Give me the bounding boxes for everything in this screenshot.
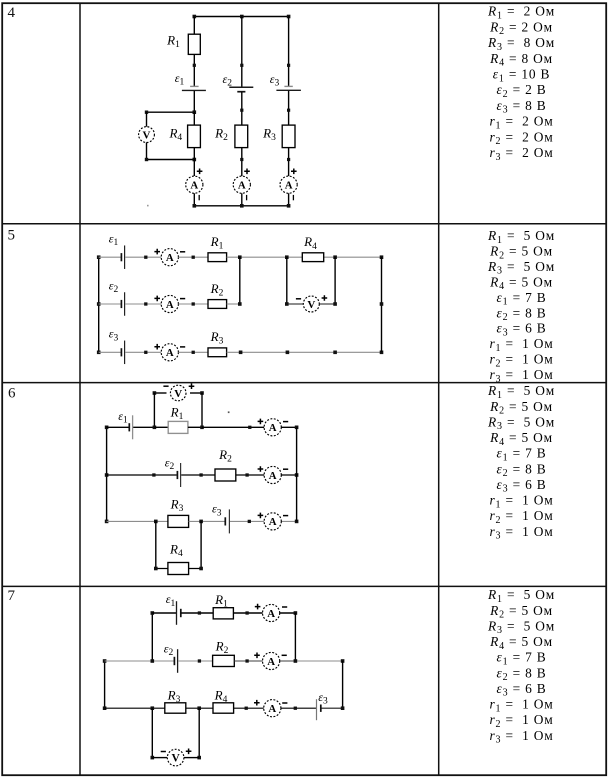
svg-text:A: A (268, 703, 276, 715)
resistor R4 (row7) (213, 703, 234, 713)
wire row4 bottom bus (194, 205, 288, 207)
node row6 Vloop top-right corner (200, 391, 204, 395)
node row4 branch3 lower junction (287, 158, 290, 161)
svg-text:R1 = 5 ОмR2 = 5 ОмR3 = 5 ОмR: R1 = 5 ОмR2 = 5 ОмR3 = 5 ОмR4 = 5 Омε1 =… (487, 228, 555, 385)
resistor R3 (row4) (282, 125, 295, 148)
node row4 bottom-right (287, 204, 291, 208)
wire row5 branch 1 segment B (125, 256, 161, 258)
wire row4 branch3 ammeter to bottom (288, 193, 290, 206)
minus mark ammeter1 (row6) (283, 421, 288, 423)
wire row6 left bus (106, 427, 108, 521)
battery eps3 (row6): long plate (228, 509, 230, 533)
plus mark ammeter1 (row5) (154, 249, 160, 255)
minus mark ammeter3 (row7) (282, 702, 287, 704)
wire row7 branch3 segA (105, 707, 165, 709)
svg-text:A: A (238, 180, 246, 192)
resistor R3 (row6) (168, 515, 189, 527)
node row7 branch2 junction-right (294, 659, 298, 663)
node row6 Vloop top-left corner (153, 391, 157, 395)
wire row6 branch3 segB (189, 520, 225, 522)
ammeter A2 (row6) (264, 466, 281, 483)
node row4 Vloop bottom-left (145, 158, 148, 161)
wire row5 Vloop right vertical (334, 257, 336, 304)
battery eps2 (row7): long plate (177, 649, 179, 673)
battery eps2 (row4): long plate (229, 86, 253, 88)
resistor R4 (row4) (188, 125, 201, 148)
node row5 right-bottom corner (380, 351, 384, 355)
wire row5 branch 2 segment A (99, 303, 121, 305)
svg-text:7: 7 (8, 588, 16, 604)
node row5 left-top (97, 255, 101, 259)
wire row7 branch1 segA (152, 612, 176, 614)
plus mark ammeter1 (row4) (197, 169, 203, 175)
ammeter A2 (row5) (161, 295, 178, 312)
wire row7 Vloop bottom-right seg (184, 757, 199, 759)
node row7 branch1 right corner (294, 611, 298, 615)
node row4 branch1 junction (193, 64, 196, 67)
voltmeter V (row6) (170, 385, 186, 401)
node row5 branch1 pre-ammeter (144, 256, 147, 259)
minus mark ammeter2 (row7) (282, 654, 287, 656)
node row6 right-bottom corner (295, 520, 299, 524)
battery eps1 (row7): short plate (180, 609, 182, 617)
svg-text:4: 4 (8, 5, 16, 21)
node row7 branch3 d2 (294, 707, 297, 710)
svg-text:V: V (174, 388, 182, 400)
node row5 junction R1-R2 (238, 255, 242, 259)
battery eps3 (row6): short plate (224, 517, 226, 525)
wire row5 branch 3 segment A (99, 351, 121, 353)
wire row7 branch3 segC (234, 707, 316, 709)
row divider 5/6 (2, 382, 606, 384)
battery eps2 (row7): short plate (173, 657, 175, 665)
wire row4 branch2 upper (241, 17, 243, 87)
plus mark ammeter3 (row4) (291, 169, 297, 175)
ammeter A1 (row6) (264, 419, 281, 436)
wire row6 R4loop left vertical (155, 521, 157, 568)
node row4 top-left (193, 15, 197, 19)
plus mark voltmeter (row6) (189, 383, 195, 389)
node row4 branch2 junction (240, 64, 243, 67)
node row5 junction Vloop-right-top (333, 255, 337, 259)
ammeter A2 (row4) (233, 176, 250, 193)
node row5 branch3 pre-resistor (192, 351, 195, 354)
wire row6 branch1 segA (107, 426, 130, 428)
svg-text:A: A (166, 299, 174, 311)
wire row6 branch1 segB (133, 426, 154, 428)
node row4 bottom-left (193, 204, 197, 208)
node row5 branch2 pre-ammeter (144, 302, 147, 305)
row divider 4/5 (2, 223, 606, 225)
wire row5 branch 2 segment C (178, 303, 208, 305)
minus mark voltmeter (row7) (161, 751, 166, 753)
svg-text:6: 6 (8, 386, 16, 402)
wire row6 branch1 segC (154, 426, 168, 428)
svg-text:A: A (267, 608, 275, 620)
node row4 Vloop top-right (193, 110, 197, 114)
minus tick ammeter1 (row4) (198, 195, 200, 200)
wire row4 branch2 battery to R2 (241, 92, 243, 125)
resistor R1 (row7) (213, 608, 233, 619)
ammeter A3 (row6) (264, 513, 281, 530)
wire row6 branch3 segC (230, 520, 297, 522)
plus mark ammeter2 (row7) (254, 653, 260, 659)
wire row4 top bus (194, 16, 288, 18)
resistor R1 (row6) (168, 421, 188, 433)
wire row4 branch1 to battery eps1 (193, 54, 195, 86)
row divider 6/7 (2, 585, 606, 587)
node row5 branch3 d3 (333, 351, 337, 355)
stray dot (row6) (228, 411, 230, 413)
node row5 branch3 pre-ammeter (144, 351, 147, 354)
node row7 Vloop bottom-left (151, 756, 155, 760)
battery eps2 (row6): long plate (180, 463, 182, 487)
wire row5 branch 1 segment A (99, 256, 121, 258)
wire row4 voltmeter loop bottom (147, 159, 195, 161)
resistor R2 (row5) (208, 300, 227, 309)
wire row6 branch3 segA (107, 520, 168, 522)
ammeter A3 (row4) (280, 176, 297, 193)
minus mark voltmeter (row5) (296, 298, 301, 300)
minus mark ammeter1 (row5) (180, 251, 185, 253)
wire row5 left bus (98, 257, 100, 352)
node row7 left-bottom (103, 706, 107, 710)
node row7 left-mid (103, 659, 107, 663)
wire row5 connector R1R2 (239, 257, 241, 304)
node row4 bottom-mid (240, 204, 244, 208)
wire row4 voltmeter loop top (147, 111, 195, 113)
node row5 branch1 pre-resistor (192, 256, 195, 259)
node row5 branch2 pre-resistor (192, 302, 195, 305)
svg-text:R1 = 2 ОмR2 = 2 ОмR3 = 8 ОмR: R1 = 2 ОмR2 = 2 ОмR3 = 8 ОмR4 = 8 Омε1 =… (487, 4, 555, 163)
minus mark ammeter1 (row7) (282, 606, 287, 608)
plus mark ammeter3 (row6) (258, 513, 264, 519)
battery eps3 (row7): long plate (316, 699, 318, 720)
wire row6 branch1 segD (188, 426, 202, 428)
node row4 branch3 mid junction (287, 109, 290, 112)
svg-text:5: 5 (8, 228, 16, 244)
node row6 right-mid (295, 473, 299, 477)
node row7 Vloop bottom-right (197, 756, 201, 760)
plus mark ammeter2 (row6) (258, 466, 264, 472)
wire row4 branch2 R2 to ammeter (241, 148, 243, 176)
resistor R4 (row5) (302, 253, 323, 262)
node row4 Vloop top-left (145, 111, 148, 114)
minus mark ammeter3 (row5) (180, 346, 185, 348)
node row6 branch3 R4junction-right (199, 520, 203, 524)
wire row7 right-lower vertical (342, 661, 344, 708)
resistor R3 (row5) (208, 348, 227, 357)
voltmeter V (row5) (303, 296, 319, 312)
ammeter A1 (row5) (161, 249, 178, 266)
resistor R4 (row6) (168, 563, 189, 575)
wire row5 Vloop left vertical (286, 257, 288, 304)
node row6 branch1 pre-ammeter (248, 426, 251, 429)
wire row6 Vloop top-left (154, 392, 166, 394)
ammeter A2 (row7) (263, 652, 280, 669)
wire row5 branch 1 segment C (178, 256, 208, 258)
node row6 R4loop bottom-right (199, 567, 203, 571)
node row7 branch1 d1 (198, 611, 201, 614)
wire row5 branch 3 segment C (178, 351, 208, 353)
node row6 R4loop bottom-left (154, 567, 158, 571)
wire row4 branch1 to R4 (193, 112, 195, 125)
node row6 branch2 d2 (199, 473, 202, 476)
node row7 branch2 right corner (341, 659, 345, 663)
node row5 left-bottom (97, 351, 101, 355)
wire row4 branch1 upper (193, 17, 195, 35)
wire row4 branch1 ammeter to bottom (193, 193, 195, 206)
wire row7 branch1 segC (233, 612, 295, 614)
wire row4 branch1 battery to Vloop (193, 91, 195, 112)
wire row7 branch3 segB (186, 707, 213, 709)
svg-text:A: A (190, 180, 198, 192)
minus mark ammeter2 (row6) (283, 468, 288, 470)
node row4 top-right (287, 15, 291, 19)
wire row7 branch2 segA (105, 660, 175, 662)
plus mark ammeter1 (row7) (255, 604, 261, 610)
wire row4 branch2 ammeter to bottom (241, 193, 243, 206)
minus mark ammeter2 (row5) (180, 298, 185, 300)
wire row7 branch1 segB (181, 612, 213, 614)
node row5 junction Vloop-left-top (285, 255, 289, 259)
node row5 left-mid (97, 302, 101, 306)
node row4 Vloop bottom-right (193, 158, 197, 162)
wire row6 R4loop bottom (156, 568, 201, 570)
table column divider 1 (79, 3, 81, 775)
node row7 branch3 Vjunction-left (151, 706, 155, 710)
battery eps1 (row6): long plate (132, 415, 134, 439)
battery eps2 (row6): short plate (176, 471, 178, 479)
wire row6 R4loop right vertical (200, 521, 202, 568)
svg-text:A: A (267, 656, 275, 668)
node row5 branch3 d2 (286, 351, 290, 355)
node row7 branch1 pre-ammeter (245, 611, 248, 614)
plus mark ammeter3 (row5) (154, 344, 160, 350)
ammeter A1 (row4) (186, 176, 203, 193)
battery eps3 (row7): short plate (320, 705, 322, 712)
plus mark voltmeter (row7) (186, 749, 192, 755)
svg-text:V: V (307, 299, 315, 311)
wire row4 Vloop left lower (146, 142, 148, 159)
battery eps2 (row5) (120, 300, 122, 308)
node row5 branch2 end (238, 302, 242, 306)
node row6 left-mid (105, 473, 109, 477)
battery eps1 (row4): long plate (182, 89, 206, 91)
wire row6 Vloop right vertical (201, 393, 203, 427)
node row5 Vloop bottom-left (285, 302, 289, 306)
wire row7 left bus (104, 661, 106, 708)
wire row5 branch1 segment D (227, 256, 382, 258)
svg-text:A: A (166, 252, 174, 264)
battery eps2 (row4): short plate (237, 91, 245, 93)
node row4 branch2 lower junction (240, 158, 243, 161)
battery eps3 (row4): short plate (284, 85, 292, 87)
wire row5 Vloop to voltmeter left (287, 303, 303, 305)
plus mark ammeter3 (row7) (254, 700, 260, 706)
minus mark ammeter3 (row6) (283, 515, 288, 517)
svg-text:A: A (269, 470, 277, 482)
node row6 left-bottom (105, 520, 109, 524)
node row6 branch3 R4junction-left (154, 520, 158, 524)
resistor R2 (row7) (213, 655, 235, 666)
wire row4 branch3 upper (288, 17, 290, 87)
resistor R2 (row6) (215, 469, 236, 481)
wire row7 branch2 segD (296, 660, 343, 662)
wire row6 right bus (296, 427, 298, 521)
node row7 branch3 Vjunction-right (197, 706, 201, 710)
plus mark voltmeter (row5) (322, 295, 328, 301)
ammeter A3 (row5) (161, 344, 178, 361)
wire row7 Vloop bottom-left seg (152, 757, 167, 759)
node row6 branch1 Vjunction-left (153, 426, 157, 430)
svg-text:A: A (269, 422, 277, 434)
wire row7 branch2 segB (178, 660, 212, 662)
minus tick ammeter2 (row4) (246, 195, 248, 200)
battery eps1 (row7): long plate (176, 601, 178, 625)
plus mark ammeter2 (row4) (244, 169, 250, 175)
svg-text:A: A (166, 347, 174, 359)
wire row6 Vloop left vertical (153, 393, 155, 427)
svg-text:R1 = 5 ОмR2 = 5 ОмR3 = 5 ОмR: R1 = 5 ОмR2 = 5 ОмR3 = 5 ОмR4 = 5 Омε1 =… (487, 587, 555, 745)
node row6 left-top (105, 426, 109, 430)
stray dot (row4) (147, 205, 149, 207)
wire row6 Vloop top-right (190, 392, 202, 394)
node row6 branch2 d1 (152, 473, 155, 476)
svg-text:V: V (171, 752, 180, 764)
wire row5 branch 2 segment B (125, 303, 161, 305)
wire row5 branch 3 segment B (125, 351, 161, 353)
voltmeter V (row7) (167, 749, 184, 766)
svg-text:A: A (285, 180, 293, 192)
minus mark voltmeter (row6) (163, 385, 168, 387)
wire row6 branch2 segA (107, 474, 177, 476)
node row5 right-top corner (380, 255, 384, 259)
battery eps1 (row4): short plate (190, 85, 199, 87)
svg-text:A: A (269, 516, 277, 528)
node row6 branch1 Vjunction-right (200, 426, 204, 430)
battery eps1 (row6): short plate (128, 423, 130, 431)
plus mark ammeter2 (row5) (154, 296, 160, 302)
node row6 branch3 pre-ammeter (248, 520, 251, 523)
wire row5 Vloop to voltmeter right (319, 303, 335, 305)
wire row5 branch2 segment D (227, 303, 240, 305)
wire row7 branch3 segD (321, 707, 342, 709)
node row4 branch3 junction (287, 64, 290, 67)
plus mark ammeter1 (row6) (258, 419, 264, 425)
battery eps1 (row5) (120, 253, 122, 261)
node row5 right-mid (380, 302, 384, 306)
node row7 branch3 right corner (341, 706, 345, 710)
minus tick ammeter3 (row4) (292, 195, 294, 200)
resistor R1 (row5) (208, 253, 227, 262)
wire row6 branch2 segC (236, 474, 297, 476)
wire row6 branch1 segE (202, 426, 297, 428)
battery eps3 (row5) (120, 348, 122, 356)
wire row7 branch2 segC (234, 660, 295, 662)
wire row4 branch3 battery to R3 (288, 91, 290, 125)
node row7 branch2 d1 (198, 659, 201, 662)
table column divider 2 (438, 3, 440, 775)
resistor R1 (row4) (188, 34, 200, 54)
node row4 top-mid (240, 15, 244, 19)
node row5 Vloop bottom-right (333, 302, 337, 306)
wire row7 left-upper vertical (151, 613, 153, 661)
resistor R2 (row4) (235, 125, 248, 148)
node row7 branch1 left corner (151, 611, 155, 615)
wire row5 right bus (381, 257, 383, 352)
node row4 branch2 mid junction (240, 109, 243, 112)
svg-text:R1 = 5 ОмR2 = 5 ОмR3 = 5 ОмR: R1 = 5 ОмR2 = 5 ОмR3 = 5 ОмR4 = 5 Омε1 =… (487, 383, 555, 541)
node row6 right-top corner (295, 426, 299, 430)
ammeter A1 (row7) (263, 604, 280, 621)
node row5 branch3 d1 (239, 351, 243, 355)
wire row7 right-upper vertical (294, 613, 296, 661)
wire row7 Vloop right vertical (198, 708, 200, 757)
wire row6 branch2 segB (181, 474, 215, 476)
battery eps3 (row4): long plate (276, 89, 301, 91)
wire row4 branch1 R4 to ammeter (193, 148, 195, 176)
ammeter A3 (row7) (264, 700, 281, 717)
wire row7 Vloop left vertical (151, 708, 153, 757)
node row6 branch2 pre-ammeter (245, 473, 248, 476)
wire row4 Vloop left upper (146, 112, 148, 127)
voltmeter V (row4) (139, 127, 155, 143)
svg-text:V: V (143, 129, 151, 141)
node row7 branch2 pre-ammeter (245, 659, 248, 662)
wire row4 branch3 R3 to ammeter (288, 148, 290, 176)
resistor R3 (row7) (165, 703, 186, 713)
node row7 branch2 junction-left (151, 659, 155, 663)
node row7 branch3 pre-ammeter (245, 707, 248, 710)
wire row5 branch3 segment D (227, 351, 382, 353)
